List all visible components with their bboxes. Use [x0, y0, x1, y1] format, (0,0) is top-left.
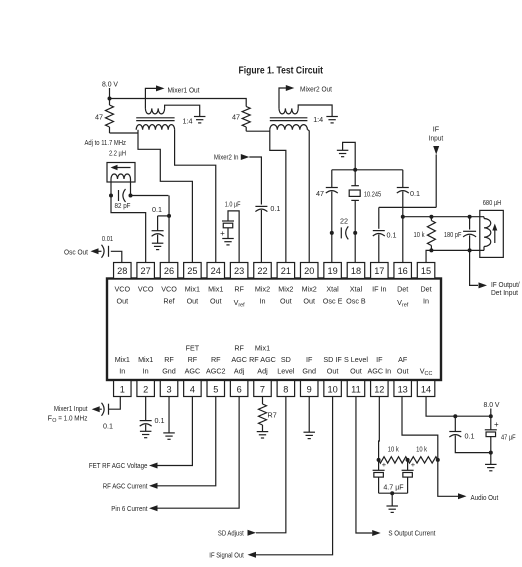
svg-text:S Output Current: S Output Current [388, 529, 435, 538]
svg-text:25: 25 [187, 266, 197, 276]
svg-text:47 µF: 47 µF [501, 432, 516, 441]
svg-text:82 pF: 82 pF [115, 201, 132, 210]
svg-text:Mix2: Mix2 [255, 285, 270, 294]
svg-text:+: + [220, 229, 225, 238]
svg-text:Figure 1. Test Circuit: Figure 1. Test Circuit [239, 66, 324, 77]
svg-text:Det: Det [420, 285, 431, 294]
svg-text:9: 9 [307, 384, 312, 394]
svg-text:10 k: 10 k [388, 445, 399, 454]
svg-text:S Level: S Level [344, 355, 368, 364]
svg-text:RF AGC: RF AGC [249, 355, 276, 364]
svg-text:Mixer1 Input: Mixer1 Input [54, 404, 88, 413]
svg-text:Out: Out [187, 297, 199, 306]
svg-text:Gnd: Gnd [162, 367, 176, 376]
svg-text:28: 28 [117, 266, 127, 276]
svg-text:23: 23 [234, 266, 244, 276]
svg-text:47: 47 [316, 189, 324, 198]
svg-text:Out: Out [210, 297, 222, 306]
svg-text:Det Input: Det Input [491, 288, 518, 297]
svg-text:RF: RF [234, 344, 244, 353]
svg-text:27: 27 [141, 266, 151, 276]
svg-text:= 1.0 MHz: = 1.0 MHz [58, 413, 88, 422]
svg-text:VCO: VCO [115, 285, 131, 294]
svg-text:26: 26 [164, 266, 174, 276]
svg-text:R7: R7 [268, 411, 277, 420]
svg-text:RF: RF [211, 355, 221, 364]
svg-text:0.1: 0.1 [387, 231, 397, 240]
svg-text:10.245: 10.245 [364, 189, 381, 198]
svg-text:Mix2: Mix2 [278, 285, 293, 294]
svg-text:7: 7 [260, 384, 265, 394]
svg-text:24: 24 [211, 266, 221, 276]
svg-text:O: O [52, 418, 56, 424]
svg-text:8.0 V: 8.0 V [484, 400, 500, 409]
svg-text:19: 19 [327, 266, 337, 276]
svg-text:10: 10 [327, 384, 337, 394]
svg-text:VCO: VCO [161, 285, 177, 294]
svg-text:2.2 µH: 2.2 µH [109, 149, 126, 158]
svg-text:21: 21 [281, 266, 291, 276]
svg-text:0.1: 0.1 [152, 205, 162, 214]
svg-text:Mixer2 In: Mixer2 In [214, 153, 239, 162]
svg-text:12: 12 [374, 384, 384, 394]
svg-text:Audio Out: Audio Out [471, 493, 499, 502]
svg-text:0.1: 0.1 [103, 421, 113, 430]
svg-text:+: + [494, 420, 499, 429]
svg-text:47: 47 [232, 113, 240, 122]
svg-text:1:4: 1:4 [183, 116, 193, 125]
svg-text:0.1: 0.1 [465, 432, 475, 441]
svg-text:11: 11 [351, 384, 361, 394]
svg-text:Xtal: Xtal [326, 285, 339, 294]
svg-text:+: + [382, 460, 387, 469]
svg-text:10 k: 10 k [416, 445, 427, 454]
svg-text:Mix1: Mix1 [185, 285, 200, 294]
svg-text:Out: Out [397, 367, 409, 376]
svg-text:4: 4 [190, 384, 195, 394]
svg-text:Mix1: Mix1 [115, 355, 130, 364]
svg-text:RF AGC Current: RF AGC Current [103, 482, 148, 491]
svg-text:RF: RF [164, 355, 174, 364]
svg-text:Input: Input [429, 134, 444, 143]
svg-text:VCO: VCO [138, 285, 154, 294]
svg-text:In: In [119, 367, 125, 376]
svg-text:SD: SD [281, 355, 291, 364]
svg-text:AF: AF [398, 355, 408, 364]
svg-text:IF: IF [433, 125, 440, 134]
svg-text:22: 22 [257, 266, 267, 276]
svg-text:Adj to 11.7 MHz: Adj to 11.7 MHz [85, 138, 127, 147]
svg-text:Pin 6 Current: Pin 6 Current [111, 504, 147, 513]
svg-text:IF: IF [376, 355, 383, 364]
svg-text:16: 16 [398, 266, 408, 276]
svg-text:Out: Out [303, 297, 315, 306]
svg-text:Vref: Vref [397, 298, 409, 309]
svg-text:Mix1: Mix1 [208, 285, 223, 294]
svg-text:AGC2: AGC2 [206, 367, 226, 376]
svg-text:Adj: Adj [257, 367, 268, 376]
svg-text:In: In [259, 297, 265, 306]
svg-text:Ref: Ref [163, 297, 174, 306]
svg-text:15: 15 [421, 266, 431, 276]
svg-text:180 pF: 180 pF [444, 230, 462, 239]
svg-text:FET RF AGC Voltage: FET RF AGC Voltage [89, 461, 148, 470]
svg-text:0.1: 0.1 [410, 189, 420, 198]
svg-text:0.01: 0.01 [102, 234, 113, 243]
svg-text:In: In [423, 297, 429, 306]
svg-text:47: 47 [95, 113, 103, 122]
svg-text:Osc E: Osc E [323, 297, 343, 306]
svg-text:18: 18 [351, 266, 361, 276]
svg-text:22: 22 [340, 217, 348, 226]
svg-text:In: In [143, 367, 149, 376]
svg-text:Mixer1 Out: Mixer1 Out [168, 85, 200, 94]
svg-text:Mixer2 Out: Mixer2 Out [300, 85, 332, 94]
svg-text:8.0 V: 8.0 V [102, 80, 118, 89]
svg-text:1: 1 [120, 384, 125, 394]
svg-text:IF: IF [306, 355, 313, 364]
svg-text:Det: Det [397, 285, 408, 294]
svg-text:SD Adjust: SD Adjust [218, 529, 244, 538]
svg-text:+: + [411, 460, 416, 469]
svg-text:13: 13 [398, 384, 408, 394]
svg-text:Out: Out [280, 297, 292, 306]
svg-text:5: 5 [213, 384, 218, 394]
svg-text:1:4: 1:4 [313, 115, 323, 124]
svg-text:Vref: Vref [234, 298, 246, 309]
svg-text:14: 14 [421, 384, 431, 394]
svg-text:Mix2: Mix2 [302, 285, 317, 294]
svg-text:6: 6 [237, 384, 242, 394]
svg-text:Level: Level [277, 367, 295, 376]
svg-text:FET: FET [186, 344, 200, 353]
svg-text:AGC: AGC [185, 367, 201, 376]
svg-text:SD IF: SD IF [323, 355, 342, 364]
svg-text:Out: Out [117, 297, 129, 306]
svg-text:Mix1: Mix1 [138, 355, 153, 364]
svg-text:Osc B: Osc B [346, 297, 366, 306]
svg-text:680 µH: 680 µH [483, 198, 502, 207]
svg-text:VCC: VCC [420, 367, 433, 378]
svg-text:10 k: 10 k [414, 230, 425, 239]
svg-text:IF Signal Out: IF Signal Out [209, 551, 244, 560]
svg-text:1.0 µF: 1.0 µF [225, 200, 241, 209]
svg-text:20: 20 [304, 266, 314, 276]
svg-text:IF In: IF In [372, 285, 386, 294]
svg-text:0.1: 0.1 [270, 204, 280, 213]
svg-text:8: 8 [283, 384, 288, 394]
svg-text:RF: RF [188, 355, 198, 364]
svg-text:0.1: 0.1 [155, 416, 165, 425]
svg-text:4.7 µF: 4.7 µF [383, 483, 404, 492]
svg-text:17: 17 [374, 266, 384, 276]
svg-text:2: 2 [143, 384, 148, 394]
svg-text:RF: RF [234, 285, 244, 294]
svg-text:Out: Out [327, 367, 339, 376]
svg-text:AGC In: AGC In [368, 367, 392, 376]
svg-text:AGC: AGC [231, 355, 247, 364]
svg-text:3: 3 [166, 384, 171, 394]
svg-text:Osc Out: Osc Out [64, 247, 88, 256]
svg-text:Out: Out [350, 367, 362, 376]
svg-text:Adj: Adj [234, 367, 245, 376]
svg-text:Xtal: Xtal [350, 285, 363, 294]
svg-text:Mix1: Mix1 [255, 344, 270, 353]
svg-text:Gnd: Gnd [302, 367, 316, 376]
